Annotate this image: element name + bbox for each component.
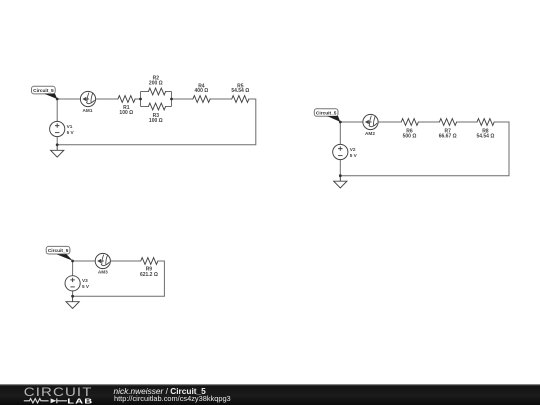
svg-text:54.54 Ω: 54.54 Ω: [476, 134, 494, 140]
voltage source V1: [50, 121, 75, 136]
node junction (circuit 2 bottom): [339, 174, 342, 177]
resistor R1: [118, 96, 136, 116]
wire: parallel block left branch: [141, 92, 149, 107]
wire: R4 to R5: [211, 98, 232, 100]
wire: AM2 to R6: [378, 121, 401, 123]
wire: parallel block right branch: [166, 92, 172, 107]
svg-text:200 Ω: 200 Ω: [149, 81, 163, 87]
wire: AM1 to R1: [96, 98, 118, 100]
svg-text:100 Ω: 100 Ω: [149, 118, 163, 124]
svg-text:AM1: AM1: [83, 108, 93, 113]
node flag Circuit_5 (circuit 2): [314, 109, 340, 122]
resistor R8: [476, 119, 494, 140]
wire: AM3 to R9: [110, 260, 140, 262]
svg-text:V2: V2: [350, 147, 356, 152]
svg-text:66.67 Ω: 66.67 Ω: [439, 134, 457, 140]
ammeter AM2: [363, 114, 378, 136]
svg-text:AM2: AM2: [365, 131, 375, 136]
node flag Circuit_5 (circuit 3): [46, 246, 72, 260]
wire: R8 to right corner and down to bottom rail: [340, 122, 509, 176]
svg-text:621.2 Ω: 621.2 Ω: [140, 272, 158, 278]
wire: node2 down to V2: [339, 122, 341, 144]
wire: node3 down to V3: [72, 261, 74, 276]
wire: R1 to parallel block: [136, 98, 141, 100]
svg-text:5 V: 5 V: [350, 153, 358, 158]
svg-text:5 V: 5 V: [67, 130, 75, 135]
node junction (circuit 2 top): [339, 121, 342, 124]
wire: R9 to right corner and down to bottom rail: [73, 261, 165, 296]
wire: R5 to right corner and down to bottom rail: [57, 99, 256, 145]
svg-text:Circuit_5: Circuit_5: [33, 88, 54, 94]
svg-text:LAB: LAB: [67, 397, 93, 405]
wire: V1 to bottom rail: [56, 137, 58, 145]
ammeter AM3: [95, 253, 110, 274]
node junction (circuit 3 bottom): [71, 295, 74, 298]
svg-text:5 V: 5 V: [82, 284, 90, 289]
voltage source V2: [333, 144, 358, 159]
wire: V2 to bottom rail: [339, 160, 341, 176]
node junction (circuit 3 top): [71, 260, 74, 263]
ammeter AM1: [80, 91, 95, 113]
node flag Circuit_5 (circuit 1): [32, 86, 58, 99]
node junction (circuit 1 top): [56, 98, 59, 101]
voltage source V3: [65, 276, 90, 291]
wire: V3 to bottom rail: [72, 291, 74, 296]
resistor R3: [148, 103, 166, 124]
svg-text:V3: V3: [82, 278, 88, 283]
ground (circuit 2): [334, 176, 347, 188]
svg-text:54.54 Ω: 54.54 Ω: [231, 88, 249, 94]
svg-text:Circuit_5: Circuit_5: [48, 248, 69, 254]
svg-text:AM3: AM3: [98, 270, 108, 275]
wire: R6 to R7: [419, 121, 439, 123]
wire: parallel block to R4: [172, 98, 193, 100]
node junction (circuit 1 bottom): [56, 143, 59, 146]
wire: node1 down to V1: [56, 99, 58, 121]
ground (circuit 1): [51, 145, 64, 157]
wire: R7 to R8: [457, 121, 477, 123]
wire: node1 to AM1: [57, 98, 80, 100]
footer logo CIRCUIT LAB: [10, 379, 110, 405]
resistor R2: [148, 76, 166, 95]
footer bar: [0, 384, 540, 405]
resistor R9: [140, 258, 158, 278]
resistor R4: [193, 83, 211, 102]
node junction (parallel left): [139, 98, 142, 101]
resistor R6: [401, 119, 419, 140]
svg-text:400 Ω: 400 Ω: [195, 88, 209, 94]
svg-text:100 Ω: 100 Ω: [119, 110, 133, 116]
resistor R5: [231, 83, 249, 102]
wire: node2 to AM2: [340, 121, 363, 123]
footer text line 2: [114, 394, 231, 403]
ground (circuit 3): [66, 296, 79, 308]
footer text line 1: [114, 386, 206, 396]
svg-text:V1: V1: [67, 124, 73, 129]
wire: node3 to AM3: [73, 260, 96, 262]
node junction (parallel right): [170, 98, 173, 101]
resistor R7: [439, 119, 457, 140]
svg-text:Circuit_5: Circuit_5: [316, 111, 337, 117]
svg-text:500 Ω: 500 Ω: [403, 134, 417, 140]
